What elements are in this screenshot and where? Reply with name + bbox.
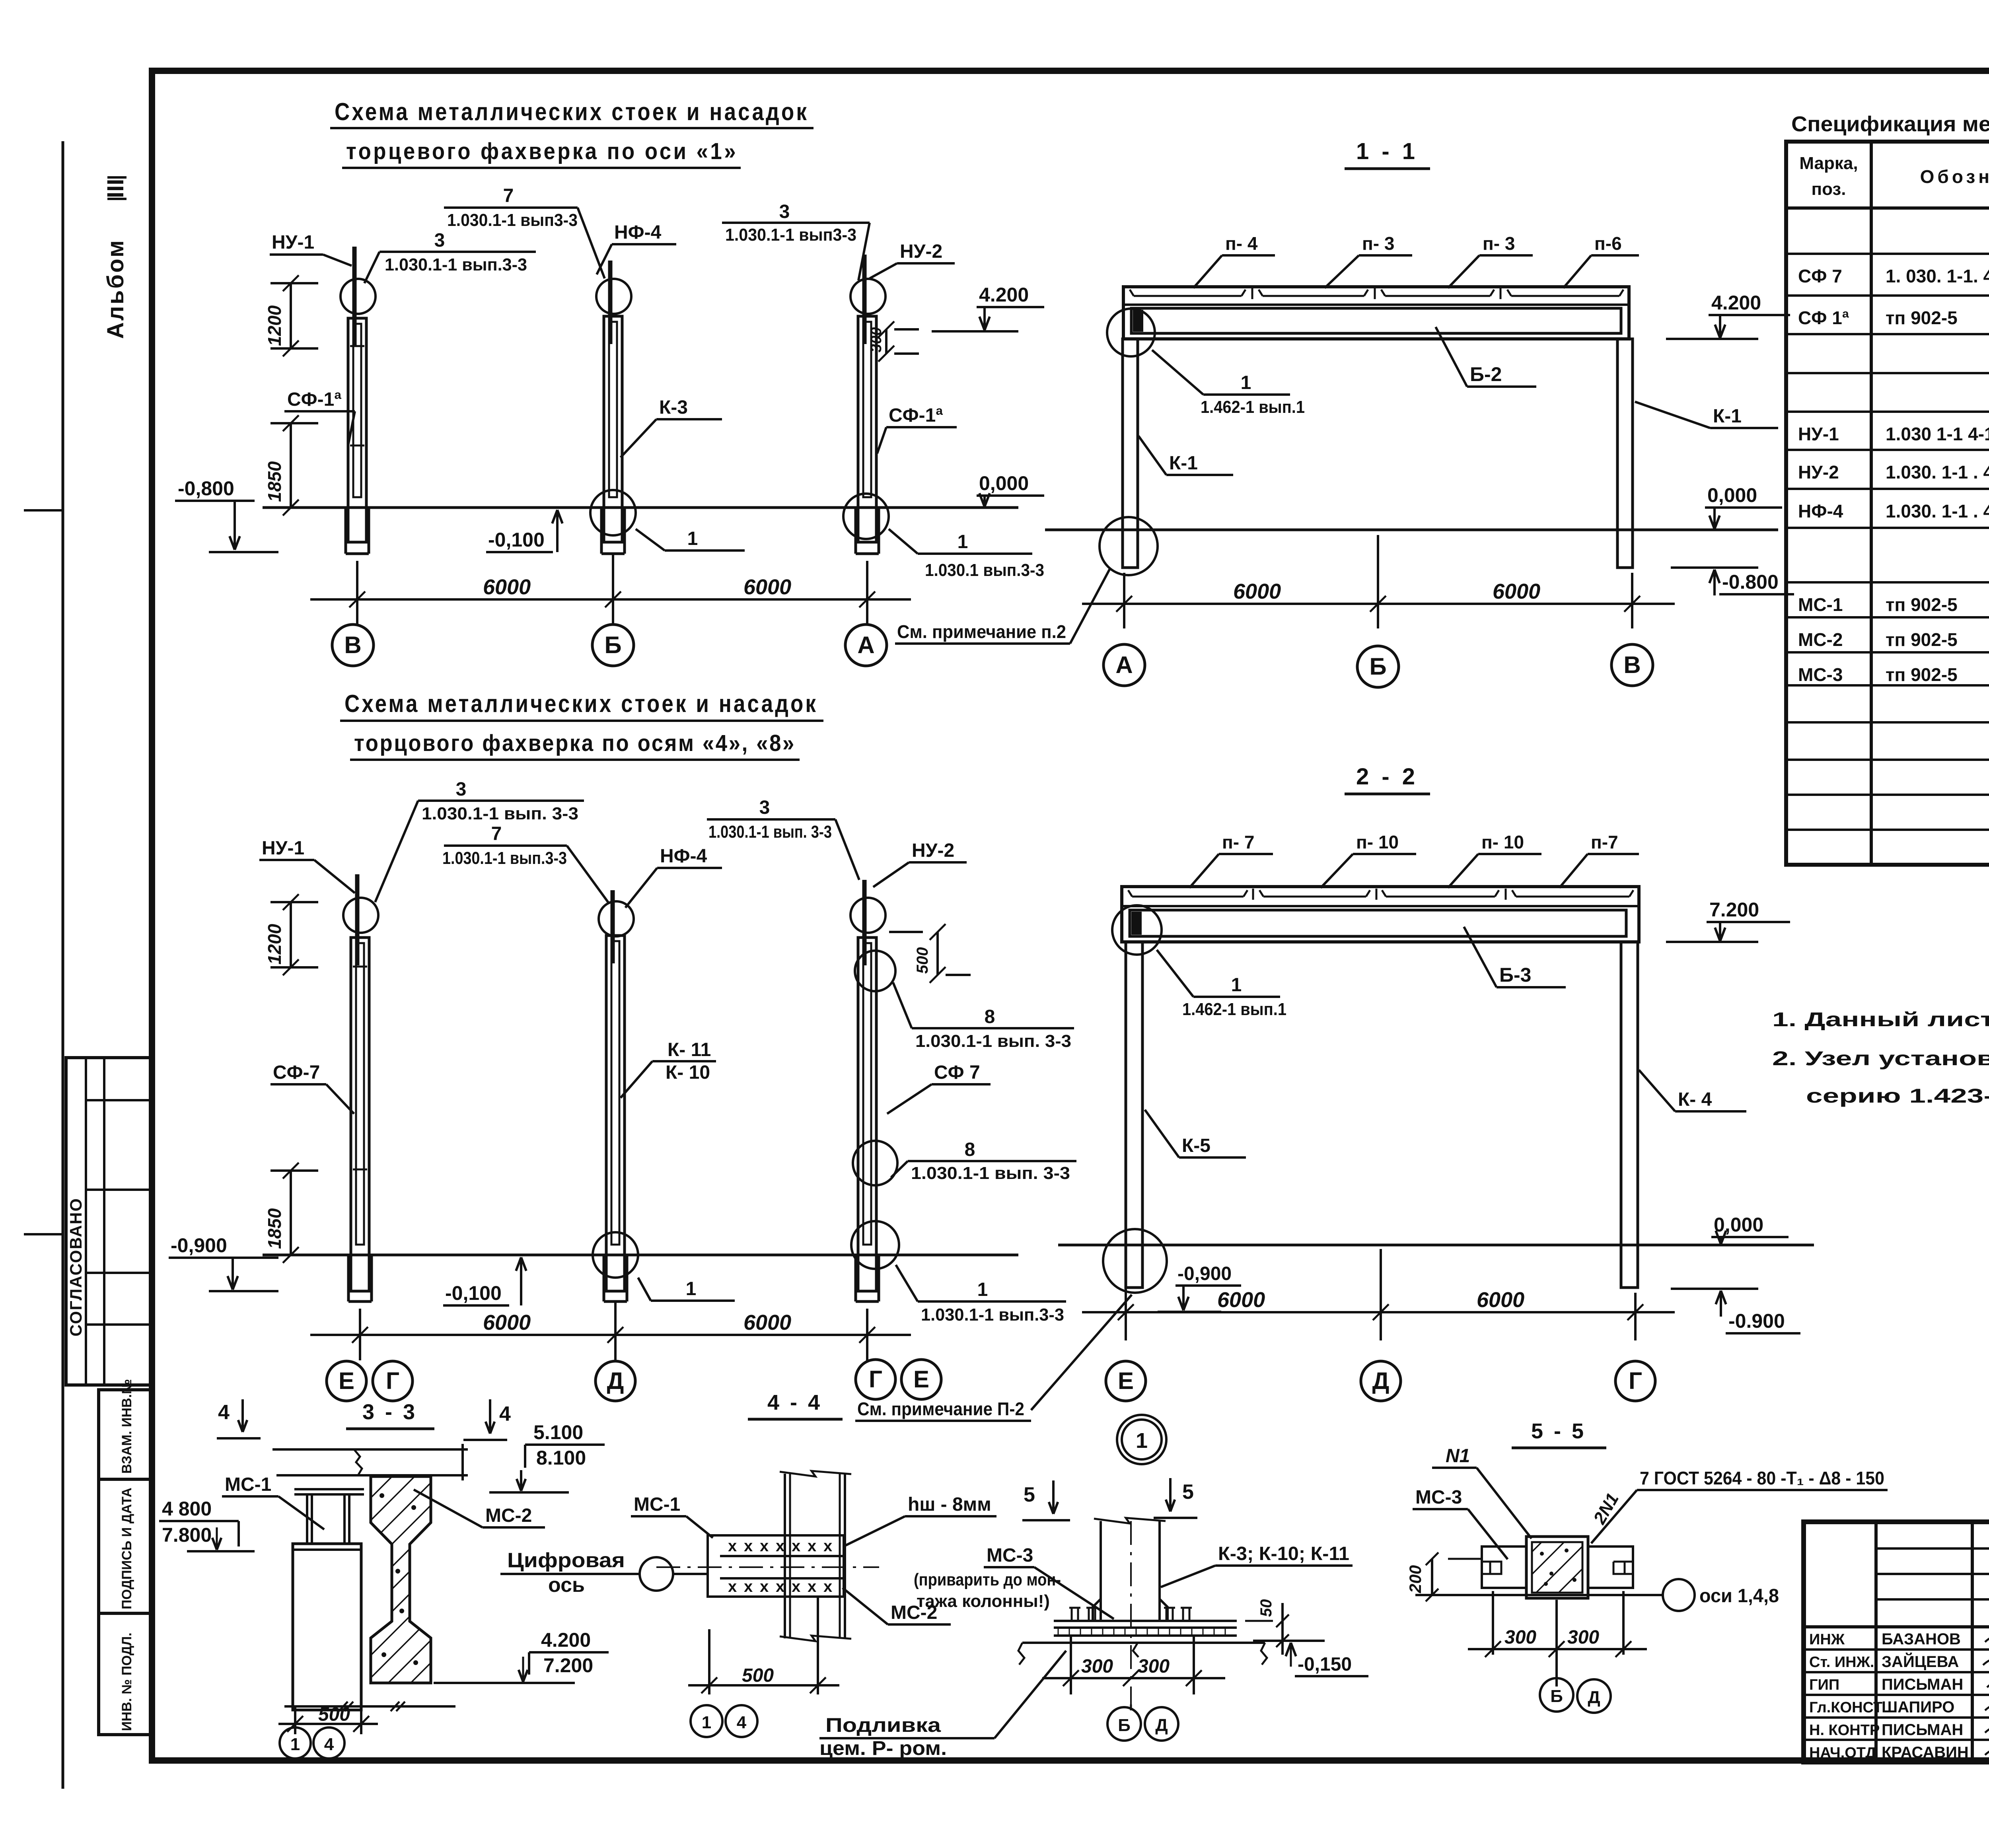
- spec row MS-2: [1798, 629, 1989, 650]
- svg-text:x: x: [776, 1578, 784, 1595]
- axis circle G section 2-2: [1615, 1361, 1655, 1401]
- schema 2 right column node circle mid1: [855, 951, 895, 991]
- svg-text:4: 4: [218, 1401, 230, 1424]
- svg-text:Обозначение: Обозначение: [1920, 166, 1989, 187]
- svg-text:Марка,: Марка,: [1799, 154, 1858, 173]
- label SF-7 schema 2 left: [271, 1062, 354, 1114]
- label 8 / 1.030.1-1 vyp.3-3 schema 2 lower: [891, 1139, 1076, 1183]
- svg-text:ось: ось: [548, 1574, 585, 1597]
- label p-3 section 1-1 b: [1448, 233, 1533, 288]
- svg-text:200: 200: [1406, 1565, 1425, 1593]
- label NU-2 schema 1: [870, 241, 955, 278]
- svg-text:Д: Д: [1155, 1716, 1168, 1735]
- svg-text:6000: 6000: [1493, 580, 1540, 603]
- detail 3-3 bottom dim 500: [278, 1702, 455, 1734]
- svg-text:1: 1: [1136, 1429, 1148, 1453]
- svg-text:-0,900: -0,900: [171, 1234, 227, 1257]
- schema 2 node circle right bottom: [851, 1221, 899, 1269]
- svg-text:МС-3: МС-3: [987, 1545, 1033, 1566]
- label K-11 K-10 schema 2: [621, 1039, 716, 1098]
- axis circle G schema 2 left: [373, 1361, 413, 1401]
- dim 1850 schema 1: [264, 415, 318, 515]
- svg-text:(приварить до мон-: (приварить до мон-: [914, 1570, 1061, 1589]
- spec row NU-2: [1798, 462, 1989, 482]
- label MS-2 detail 4-4: [843, 1588, 951, 1624]
- section 1-1 column K-1 right: [1617, 339, 1633, 568]
- label hsh-8mm detail 4-4: [843, 1494, 996, 1546]
- svg-text:1850: 1850: [264, 461, 285, 502]
- section 1-1 node circle bottom left: [1100, 517, 1158, 575]
- soglasovano stamp table: [66, 1058, 150, 1385]
- svg-text:ЗАЙЦЕВА: ЗАЙЦЕВА: [1882, 1652, 1959, 1671]
- svg-text:НУ-1: НУ-1: [262, 838, 304, 859]
- label K-4 section 2-2: [1639, 1070, 1746, 1111]
- svg-text:Е: Е: [1118, 1368, 1134, 1394]
- section 1-1 ground line: [1045, 529, 1778, 531]
- svg-text:300: 300: [868, 327, 885, 352]
- detail 3-3 slab: [272, 1444, 468, 1480]
- svg-text:п- 10: п- 10: [1356, 832, 1399, 852]
- svg-text:-0,900: -0,900: [1177, 1263, 1232, 1284]
- svg-text:Схема металлических стоек и: Схема металлических стоек и насадок: [344, 690, 818, 718]
- label p-10 section 2-2 b: [1448, 832, 1541, 888]
- svg-text:5.100: 5.100: [533, 1421, 583, 1443]
- svg-text:К-5: К-5: [1182, 1135, 1211, 1156]
- svg-text:торцевого фахверка по оси: торцевого фахверка по оси «1»: [346, 138, 738, 164]
- svg-text:1.030.1-1 вып.3-3: 1.030.1-1 вып.3-3: [921, 1305, 1064, 1325]
- label p-6 section 1-1: [1563, 233, 1639, 288]
- svg-text:x: x: [808, 1537, 816, 1555]
- base detail gussets and bolts: [1069, 1599, 1192, 1621]
- level -0.100 schema 1: [486, 510, 562, 552]
- detail mark circled 1: [1117, 1415, 1166, 1464]
- schema 2 node circle middle bottom: [593, 1232, 638, 1278]
- label MS-1 detail 4-4: [631, 1494, 713, 1538]
- svg-text:НФ-4: НФ-4: [614, 222, 662, 243]
- svg-text:тп 902-5: тп 902-5: [1886, 629, 1958, 650]
- svg-text:Гл.КОНСТ: Гл.КОНСТ: [1809, 1699, 1882, 1716]
- svg-text:1.462-1 вып.1: 1.462-1 вып.1: [1182, 1000, 1286, 1019]
- svg-text:-0.900: -0.900: [1728, 1310, 1785, 1332]
- label p-4 section 1-1: [1193, 233, 1275, 288]
- section 2-2 beam B-3: [1130, 910, 1626, 936]
- svg-text:цем. Р- ром.: цем. Р- ром.: [819, 1737, 947, 1759]
- section 1-1 column K-1 left: [1123, 339, 1138, 568]
- schema 1 node circle A bottom: [843, 494, 889, 539]
- svg-text:500: 500: [742, 1665, 774, 1686]
- svg-text:2 - 2: 2 - 2: [1356, 764, 1418, 790]
- dim 1200 schema 2: [264, 894, 318, 975]
- svg-text:ПИСЬМАН: ПИСЬМАН: [1882, 1721, 1963, 1739]
- svg-text:x: x: [823, 1578, 832, 1595]
- svg-text:-0,150: -0,150: [1298, 1654, 1352, 1675]
- svg-text:1: 1: [977, 1279, 988, 1300]
- podlivka note: [819, 1651, 1066, 1759]
- svg-text:1.030.1-1 вып3-3: 1.030.1-1 вып3-3: [725, 225, 856, 245]
- section 2-2 roof panels: [1128, 889, 1633, 900]
- label K-3 schema 1: [621, 397, 722, 457]
- svg-text:СОГЛАСОВАНО: СОГЛАСОВАНО: [66, 1198, 85, 1336]
- level -0.900 schema 2 left: [169, 1234, 278, 1291]
- svg-text:6000: 6000: [1233, 580, 1281, 603]
- schema 1 stoyka B (axis V): [341, 247, 376, 554]
- section 1-1 node circle top left: [1107, 309, 1155, 356]
- vzam inv stamp box: [99, 1379, 150, 1479]
- spec table grid: [1786, 142, 1989, 865]
- svg-text:300: 300: [1567, 1627, 1599, 1648]
- svg-text:1: 1: [290, 1735, 300, 1754]
- detail 3-3 concrete beam: [371, 1476, 431, 1683]
- svg-text:МС-3: МС-3: [1798, 664, 1843, 685]
- svg-text:КРАСАВИН: КРАСАВИН: [1882, 1744, 1969, 1761]
- spec row SF1a: [1798, 307, 1989, 328]
- level -0.800 schema 1: [175, 477, 278, 552]
- schema 1 ground line: [263, 506, 1018, 509]
- detail 5-5 axis line and circle: [1415, 1579, 1779, 1611]
- title block grid: [1804, 1522, 1989, 1762]
- svg-text:ВЗАМ. ИНВ.№: ВЗАМ. ИНВ.№: [119, 1379, 134, 1474]
- label 3 / 1.030.1-1 vyp.3-3 schema 1 left: [364, 230, 536, 283]
- svg-text:К-3: К-3: [659, 397, 688, 418]
- axis circle V section 1-1: [1611, 644, 1653, 686]
- svg-text:1 - 1: 1 - 1: [1356, 138, 1418, 164]
- svg-text:x: x: [808, 1578, 816, 1595]
- svg-text:6000: 6000: [743, 1311, 791, 1334]
- svg-text:1.462-1 вып.1: 1.462-1 вып.1: [1201, 397, 1305, 417]
- label K-1 left column section 1-1: [1139, 436, 1233, 475]
- label SF-1a schema 1 right: [877, 405, 957, 453]
- label NF-4 schema 1: [597, 222, 676, 274]
- detail 5-5 right plate: [1588, 1546, 1633, 1588]
- spec table header text: [1799, 154, 1989, 199]
- detail 4-4 axis circles 1 4: [691, 1705, 757, 1737]
- label B-3 section 2-2: [1464, 927, 1566, 987]
- schema 1 stoyka B (axis B): [596, 261, 631, 554]
- title block signature rows: [1809, 1630, 1969, 1761]
- section 2-2 roof slab band: [1122, 887, 1639, 942]
- label 1 leader schema 2 middle bottom: [638, 1278, 735, 1301]
- schema 1 stoyka B mid ticks: [350, 346, 364, 445]
- schema 2 stoyka D middle: [599, 890, 634, 1301]
- dim 500 schema 2 right: [889, 924, 971, 983]
- svg-text:МС-2: МС-2: [1798, 629, 1843, 650]
- inv no podl stamp box: [99, 1613, 150, 1735]
- dim 300 schema 1 right: [868, 321, 919, 362]
- svg-text:x: x: [792, 1537, 800, 1555]
- level -0.150 base detail: [1253, 1641, 1368, 1676]
- svg-text:Б: Б: [1550, 1687, 1563, 1706]
- svg-text:НУ-2: НУ-2: [912, 840, 954, 861]
- label MS-3 detail 5-5: [1413, 1487, 1508, 1559]
- detail 5-5 column square: [1526, 1537, 1588, 1598]
- label K-1 right column section 1-1: [1635, 402, 1778, 428]
- detail 4-4 dim 500: [688, 1597, 839, 1694]
- base detail base plate: [1054, 1621, 1237, 1636]
- svg-text:8: 8: [965, 1139, 975, 1160]
- label K-3 K-10 K-11 base detail: [1161, 1543, 1353, 1587]
- svg-text:1200: 1200: [264, 305, 285, 346]
- svg-text:оси 1,4,8: оси 1,4,8: [1699, 1585, 1779, 1607]
- base detail axis circles B D: [1107, 1707, 1178, 1741]
- svg-text:500: 500: [914, 947, 931, 974]
- svg-text:1.030.1 вып.3-3: 1.030.1 вып.3-3: [925, 560, 1044, 580]
- svg-text:4: 4: [737, 1713, 747, 1732]
- svg-text:тп 902-5: тп 902-5: [1886, 664, 1958, 685]
- svg-text:МС-1: МС-1: [1798, 594, 1843, 615]
- album label: [103, 177, 128, 339]
- axis circle E schema 2 left: [327, 1361, 366, 1401]
- svg-text:п- 4: п- 4: [1225, 233, 1258, 254]
- svg-text:5 - 5: 5 - 5: [1531, 1419, 1586, 1443]
- detail 5-5 axis circles B D: [1540, 1678, 1611, 1713]
- axis circle E schema 2 right: [901, 1360, 941, 1399]
- label N1 detail 5-5: [1432, 1445, 1532, 1539]
- detail 5-5 dim 300 300: [1468, 1591, 1647, 1687]
- svg-text:7: 7: [491, 823, 502, 844]
- svg-text:СФ-1ª: СФ-1ª: [889, 405, 943, 426]
- svg-text:тажа колонны!): тажа колонны!): [917, 1591, 1050, 1611]
- label 3 / 1.030.1-1 vyp.3-3 schema 2 right: [707, 797, 859, 880]
- schema 1 stoyka A (axis A): [850, 255, 886, 554]
- svg-text:x: x: [744, 1537, 753, 1555]
- svg-text:8: 8: [985, 1006, 995, 1027]
- schema 1 node circle B bottom: [590, 490, 636, 535]
- svg-text:3: 3: [434, 230, 445, 251]
- svg-text:6000: 6000: [1477, 1288, 1524, 1312]
- svg-text:МС-3: МС-3: [1415, 1487, 1462, 1508]
- section 1-1 beam B-2: [1131, 308, 1621, 333]
- svg-text:1.030. 1-1 . 4-1 - 020: 1.030. 1-1 . 4-1 - 020: [1886, 462, 1989, 482]
- svg-text:Ст. ИНЖ.: Ст. ИНЖ.: [1809, 1654, 1874, 1671]
- svg-text:x: x: [792, 1578, 800, 1595]
- svg-text:Е: Е: [913, 1366, 929, 1393]
- detail 4-4 center line: [656, 1566, 879, 1568]
- title block signatures: [1983, 1632, 1989, 1755]
- svg-text:Н. КОНТР: Н. КОНТР: [1809, 1722, 1880, 1739]
- svg-text:1.030.1-1 вып. 3-3: 1.030.1-1 вып. 3-3: [422, 804, 578, 823]
- axis circle G schema 2 right: [856, 1360, 895, 1399]
- axis circle B schema 1: [592, 624, 634, 666]
- section 1-1 roof slab band: [1123, 287, 1629, 339]
- base detail dim 50: [1245, 1599, 1289, 1655]
- svg-text:1.030.1-1 вып.3-3: 1.030.1-1 вып.3-3: [442, 848, 567, 868]
- svg-text:1200: 1200: [264, 924, 285, 965]
- svg-text:1.030.1-1 вып3-3: 1.030.1-1 вып3-3: [447, 210, 578, 230]
- label p-3 section 1-1 a: [1325, 233, 1412, 288]
- svg-text:НФ-4: НФ-4: [1798, 501, 1843, 521]
- title block outer: [1804, 1522, 1989, 1762]
- label 1 / 1.030.1-1 vyp.3-3 schema 2 right bottom: [896, 1265, 1066, 1325]
- svg-text:ИНВ. № ПОДЛ.: ИНВ. № ПОДЛ.: [119, 1632, 134, 1731]
- svg-text:4.200: 4.200: [1711, 292, 1761, 314]
- axis circle D section 2-2: [1361, 1361, 1401, 1401]
- axis circle D schema 2: [596, 1361, 635, 1401]
- svg-text:4.200: 4.200: [979, 284, 1029, 306]
- spec row NF-4: [1798, 501, 1989, 521]
- svg-text:1.030.1-1 вып. 3-3: 1.030.1-1 вып. 3-3: [708, 822, 832, 842]
- svg-text:0,000: 0,000: [1714, 1214, 1763, 1236]
- svg-text:7.200: 7.200: [543, 1654, 593, 1677]
- svg-text:1.030.1-1 вып. 3-3: 1.030.1-1 вып. 3-3: [911, 1163, 1070, 1183]
- level -0.900 section 2-2 right: [1671, 1289, 1800, 1333]
- svg-text:1: 1: [958, 531, 968, 552]
- svg-text:НУ-2: НУ-2: [900, 241, 942, 262]
- label MS-3 base detail: [914, 1545, 1114, 1619]
- spec row NU-1: [1798, 424, 1989, 444]
- svg-text:-0,100: -0,100: [445, 1282, 502, 1304]
- svg-text:СФ 7: СФ 7: [934, 1062, 980, 1083]
- svg-text:В: В: [344, 632, 361, 658]
- svg-text:4: 4: [324, 1735, 334, 1754]
- svg-text:Е: Е: [339, 1368, 354, 1394]
- section 2-2 node circle top left: [1112, 905, 1162, 955]
- svg-text:0,000: 0,000: [979, 472, 1029, 494]
- svg-text:НУ-2: НУ-2: [1798, 462, 1839, 482]
- svg-text:7: 7: [503, 185, 514, 206]
- svg-text:МС-1: МС-1: [634, 1494, 680, 1515]
- svg-text:п-6: п-6: [1594, 233, 1622, 254]
- spec row MS-1: [1798, 594, 1989, 615]
- svg-text:п- 3: п- 3: [1483, 233, 1515, 254]
- svg-text:6000: 6000: [483, 1311, 531, 1334]
- svg-text:п- 10: п- 10: [1481, 832, 1524, 852]
- svg-text:НФ-4: НФ-4: [660, 846, 707, 867]
- svg-text:1.030. 1-1 . 4-1- 040 СБ: 1.030. 1-1 . 4-1- 040 СБ: [1886, 501, 1989, 521]
- svg-text:Г: Г: [869, 1366, 882, 1393]
- svg-text:hш - 8мм: hш - 8мм: [908, 1494, 991, 1515]
- svg-text:ПОДПИСЬ И ДАТА: ПОДПИСЬ И ДАТА: [119, 1488, 134, 1609]
- svg-text:1: 1: [702, 1713, 711, 1732]
- schema 2 right column node circle mid2: [853, 1141, 897, 1185]
- svg-text:НАЧ.ОТД: НАЧ.ОТД: [1809, 1745, 1876, 1761]
- svg-text:поз.: поз.: [1812, 179, 1846, 199]
- dim line 6000 schema 2: [310, 1301, 911, 1360]
- section 2-2 column K-5 left: [1126, 942, 1142, 1288]
- svg-text:п- 7: п- 7: [1222, 832, 1254, 852]
- svg-text:Б: Б: [1369, 653, 1386, 680]
- dim 1200 schema 1: [264, 275, 318, 356]
- spec table title: [1791, 112, 1989, 136]
- svg-text:4: 4: [499, 1403, 511, 1426]
- schema 2 ground line: [263, 1254, 1018, 1257]
- level 4.200 schema 1 right: [932, 284, 1044, 331]
- svg-text:3 - 3: 3 - 3: [362, 1400, 417, 1424]
- label B-2 section 1-1: [1436, 327, 1536, 387]
- svg-text:ГИП: ГИП: [1809, 1677, 1839, 1693]
- section 2-2 title: [1345, 764, 1430, 794]
- detail 3-3 posts: [294, 1489, 364, 1544]
- level 7.200 section 2-2: [1666, 899, 1790, 942]
- label NU-1 schema 2: [259, 838, 355, 893]
- svg-text:III: III: [103, 179, 128, 198]
- svg-text:Альбом: Альбом: [103, 239, 128, 339]
- level -0.100 schema 2: [443, 1257, 526, 1305]
- svg-text:МС-1: МС-1: [225, 1474, 271, 1495]
- level 0.000 schema 1 right: [977, 472, 1044, 507]
- svg-text:6000: 6000: [483, 575, 531, 599]
- svg-text:1. 030. 1-1. 4-2 - 10 сб: 1. 030. 1-1. 4-2 - 10 сб: [1886, 266, 1989, 286]
- svg-text:СФ-1ª: СФ-1ª: [287, 389, 341, 410]
- svg-text:Д: Д: [1372, 1368, 1390, 1394]
- note sm.primechanie P-2 near 4-4: [855, 1295, 1132, 1421]
- detail 5-5 dim 200: [1406, 1552, 1482, 1601]
- label 7 / 1.030.1-1 vyp3-3 schema 1: [444, 185, 605, 278]
- svg-text:2. Узел установки колонн в: 2. Узел установки колонн в фундамент см.: [1772, 1047, 1989, 1070]
- detail 3-3 title: [346, 1400, 434, 1429]
- svg-text:x: x: [760, 1537, 769, 1555]
- svg-text:тп 902-5: тп 902-5: [1886, 594, 1958, 615]
- svg-text:серию 1.423-3, вып. 0-1, л: серию 1.423-3, вып. 0-1, лист. 6 .: [1806, 1085, 1989, 1107]
- svg-text:Б: Б: [604, 632, 621, 658]
- svg-text:К-1: К-1: [1713, 406, 1742, 427]
- fold mark upper: [24, 509, 63, 512]
- svg-text:Спецификация металлических с: Спецификация металлических стоек и насад…: [1791, 112, 1989, 136]
- svg-text:8.100: 8.100: [536, 1447, 586, 1469]
- svg-text:4 - 4: 4 - 4: [767, 1391, 822, 1414]
- detail 3-3 column: [293, 1544, 361, 1710]
- fold mark lower: [24, 1233, 63, 1235]
- svg-text:300: 300: [1138, 1656, 1170, 1677]
- svg-text:x: x: [823, 1537, 832, 1555]
- detail 5-5 title: [1512, 1419, 1606, 1448]
- svg-text:3: 3: [779, 201, 790, 222]
- svg-text:Д: Д: [1588, 1688, 1600, 1707]
- label 7 / 1.030.1-1 vyp.3-3 schema 2: [442, 823, 609, 903]
- svg-text:ПИСЬМАН: ПИСЬМАН: [1882, 1676, 1963, 1693]
- svg-text:Схема металлических стоек и: Схема металлических стоек и насадок: [335, 98, 809, 126]
- svg-text:6000: 6000: [743, 575, 791, 599]
- svg-text:К- 11: К- 11: [668, 1039, 711, 1060]
- detail 3-3 axis circles 1 4: [280, 1727, 344, 1759]
- level 4.200 section 1-1: [1666, 292, 1790, 339]
- podpis i data stamp box: [99, 1479, 150, 1613]
- label K-5 section 2-2: [1145, 1110, 1246, 1157]
- svg-text:300: 300: [1081, 1656, 1113, 1677]
- base detail section marks 5: [1022, 1478, 1197, 1520]
- detail 4-4 weld marks: [728, 1537, 832, 1595]
- section 1-1 roof panels: [1130, 288, 1623, 299]
- axis circle A section 1-1: [1103, 644, 1145, 686]
- dim line 6000 schema 1: [310, 553, 911, 624]
- detail 4-4 title: [748, 1391, 843, 1419]
- spec row MS-3: [1798, 664, 1989, 685]
- svg-text:7.800: 7.800: [162, 1524, 212, 1546]
- section mark 4 right: [463, 1399, 511, 1440]
- left sheet edge line: [62, 141, 64, 1789]
- label 3 / 1.030.1-1 vyp3-3 schema 1 right: [722, 201, 870, 280]
- level 4.800 7.800 detail 3-3: [159, 1498, 255, 1551]
- svg-text:А: А: [857, 632, 874, 658]
- svg-text:x: x: [744, 1578, 753, 1595]
- svg-text:1850: 1850: [264, 1208, 285, 1249]
- label 3 / 1.030.1-1 vyp.3-3 schema 2 left: [375, 779, 584, 902]
- label GOST weld detail 5-5: [1590, 1468, 1888, 1543]
- svg-text:1: 1: [1241, 372, 1251, 393]
- svg-text:-0.800: -0.800: [1722, 571, 1779, 593]
- svg-text:НУ-1: НУ-1: [1798, 424, 1839, 444]
- label NU-1 schema 1: [270, 232, 352, 266]
- svg-text:50: 50: [1257, 1599, 1275, 1617]
- svg-text:НУ-1: НУ-1: [272, 232, 314, 253]
- label p-7 section 2-2 a: [1189, 832, 1273, 888]
- label SF 7 schema 2 right: [887, 1062, 991, 1114]
- label NF-4 schema 2: [625, 846, 722, 908]
- dim line 6000 section 1-1: [1082, 535, 1675, 628]
- section 2-2 node circle bottom left: [1103, 1229, 1167, 1293]
- schema 2 title line 2: [350, 730, 800, 760]
- section 2-2 column K-4 right: [1621, 942, 1638, 1288]
- svg-text:6000: 6000: [1217, 1288, 1265, 1312]
